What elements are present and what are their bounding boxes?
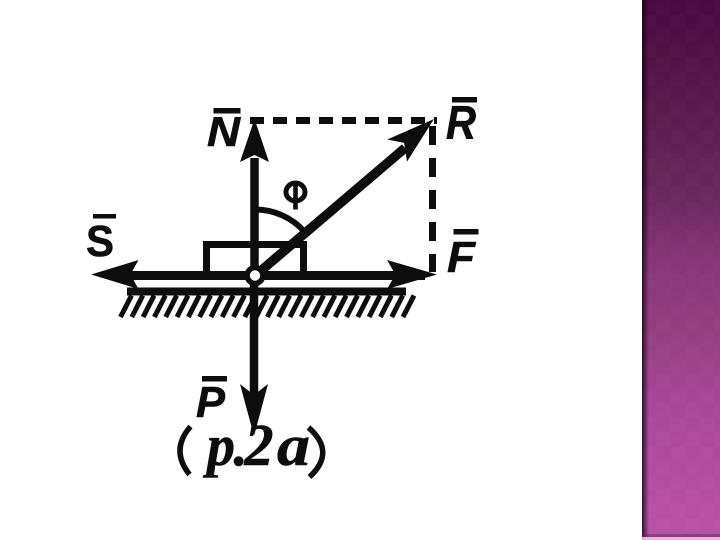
vector R (resultant) shaft <box>257 148 405 274</box>
sidebar dark left edge <box>642 0 656 540</box>
vector S arrowhead <box>91 260 139 289</box>
label R macron <box>452 97 477 103</box>
sidebar bottom shade line <box>642 534 720 537</box>
vector F shaft <box>256 271 425 280</box>
vector N arrowhead <box>240 119 269 162</box>
right sidebar gradient bar <box>642 0 720 540</box>
label P macron <box>202 376 227 382</box>
dashed construction line right (R tip to F tip) <box>429 126 436 272</box>
vector P arrowhead <box>240 384 268 436</box>
support surface line <box>127 288 406 296</box>
label F macron <box>454 229 479 235</box>
block resting on surface <box>207 245 304 273</box>
ground hatching <box>121 296 415 318</box>
svg-text:р.2а: р.2а <box>202 412 310 478</box>
vector S shaft <box>129 271 256 280</box>
caption close paren <box>309 428 323 478</box>
svg-text:S: S <box>86 217 114 266</box>
svg-text:F: F <box>447 233 476 282</box>
label N macron <box>214 108 241 114</box>
caption open paren <box>180 427 191 475</box>
sidebar bottom light strip <box>642 537 720 540</box>
vector F arrowhead <box>387 260 437 289</box>
svg-text:N: N <box>207 108 242 155</box>
sidebar texture <box>642 0 720 540</box>
symbol phi bowl <box>286 183 305 201</box>
angle arc phi <box>255 209 305 232</box>
svg-text:R: R <box>446 96 476 149</box>
label S macron <box>93 214 116 219</box>
origin node <box>247 268 263 284</box>
vector R arrowhead <box>387 119 434 162</box>
symbol phi stem <box>293 182 298 210</box>
vector P (weight) shaft <box>250 278 259 398</box>
dashed construction line top (N tip to R tip) <box>250 117 437 124</box>
vector N (normal) shaft <box>250 158 259 273</box>
